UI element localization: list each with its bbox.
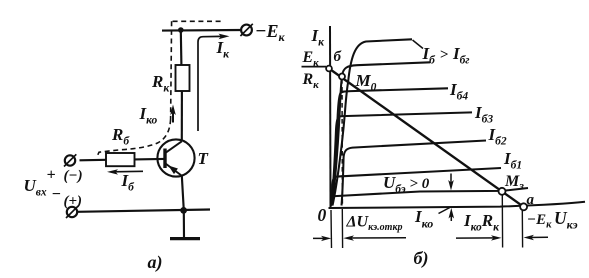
svg-text:−Eк: −Eк bbox=[527, 212, 552, 231]
svg-text:−: − bbox=[52, 186, 62, 203]
svg-text:б): б) bbox=[414, 248, 429, 269]
svg-text:Iк: Iк bbox=[311, 26, 326, 49]
svg-text:IкоRк: IкоRк bbox=[463, 211, 500, 234]
svg-text:a: a bbox=[527, 192, 535, 208]
svg-text:Iб2: Iб2 bbox=[488, 125, 507, 148]
svg-text:Iб4: Iб4 bbox=[449, 80, 468, 103]
svg-text:Uвх: Uвх bbox=[24, 176, 47, 199]
svg-text:б: б bbox=[334, 49, 342, 65]
svg-text:а): а) bbox=[148, 252, 163, 273]
svg-text:+: + bbox=[47, 167, 56, 184]
svg-text:Iб: Iб bbox=[121, 171, 136, 194]
svg-text:T: T bbox=[198, 149, 209, 168]
svg-text:Rб: Rб bbox=[111, 125, 130, 148]
svg-text:Мз: Мз bbox=[504, 173, 524, 193]
svg-text:0: 0 bbox=[318, 205, 327, 225]
svg-text:Rк: Rк bbox=[302, 71, 320, 91]
svg-text:Rк: Rк bbox=[151, 72, 170, 95]
svg-text:Iко: Iко bbox=[414, 207, 433, 231]
svg-text:Iб1: Iб1 bbox=[503, 149, 522, 172]
svg-text:Iко: Iко bbox=[139, 104, 158, 127]
svg-text:(+): (+) bbox=[64, 194, 83, 210]
svg-text:−Eк: −Eк bbox=[255, 21, 286, 44]
svg-text:Uкэ: Uкэ bbox=[554, 208, 578, 232]
svg-text:Iб > Iбг: Iб > Iбг bbox=[422, 44, 470, 67]
svg-text:Iк: Iк bbox=[216, 38, 231, 61]
svg-text:ΔUкэ.откр: ΔUкэ.откр bbox=[346, 214, 403, 234]
svg-text:(−): (−) bbox=[64, 168, 83, 184]
svg-text:Iб3: Iб3 bbox=[474, 103, 493, 126]
